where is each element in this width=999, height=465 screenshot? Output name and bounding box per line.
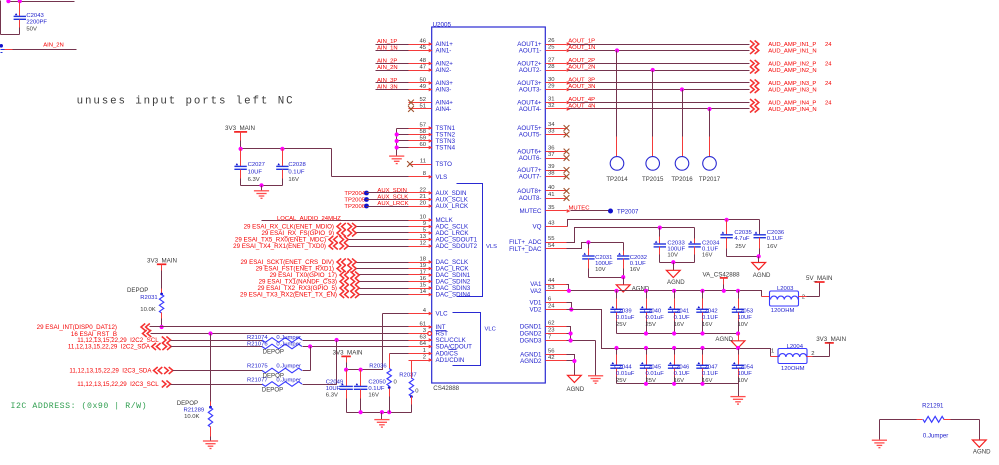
svg-text:59: 59 (419, 135, 426, 141)
junction VA tap (722, 289, 726, 293)
junction C2043 top (18, 0, 22, 3)
svg-text:27: 27 (548, 58, 555, 64)
capacitor C2047 (696, 349, 718, 385)
svg-text:AOUT_3N: AOUT_3N (568, 84, 595, 90)
off-page connector I2C2_SDA (68, 343, 171, 351)
NC mark AOUT8+ (564, 188, 570, 194)
junction C2047 top (700, 346, 704, 350)
testpoint TP2006 (344, 204, 369, 210)
svg-text:24: 24 (825, 101, 832, 107)
svg-text:VD1: VD1 (529, 300, 542, 307)
junction C2042 top (700, 289, 704, 293)
svg-text:2: 2 (802, 294, 805, 300)
wire net VD1 (567, 303, 572, 310)
capacitor C2050 (354, 370, 387, 413)
svg-text:C2039: C2039 (614, 308, 631, 314)
svg-text:10UF: 10UF (326, 386, 341, 392)
junction C2040 top (644, 289, 648, 293)
U2005 pin 29 AOUT3- (519, 84, 571, 94)
svg-text:R2037: R2037 (399, 372, 416, 378)
svg-text:AIN_2N: AIN_2N (377, 65, 398, 71)
wire net I2C3_SCL with jumper R21077 (171, 341, 337, 385)
capacitor C2041 (668, 291, 690, 334)
svg-text:AOUT_4N: AOUT_4N (568, 104, 595, 110)
U2005 pin 25 AOUT1- (519, 45, 571, 55)
svg-text:AIN_1N: AIN_1N (377, 45, 398, 51)
wire top-left net to C2043 (1, 1, 75, 35)
svg-text:VLC: VLC (436, 311, 449, 318)
svg-text:AUD_AMP_IN2_N: AUD_AMP_IN2_N (768, 68, 816, 74)
wire R21291 right to AGND (979, 420, 981, 441)
U2005 pin 27 AOUT2+ (517, 58, 570, 68)
wire net FILT+_ADC (567, 228, 695, 243)
off-page connector ESAI_FST(ENET_RXD1) (256, 265, 357, 273)
svg-text:51: 51 (419, 103, 426, 109)
off-page connector AOUT_3N (750, 86, 754, 93)
wire net I2C2_SCL with jumper R21074 (171, 340, 432, 342)
svg-text:0.1UF: 0.1UF (702, 371, 718, 377)
svg-text:54: 54 (548, 243, 555, 249)
svg-text:12: 12 (419, 240, 426, 246)
wire net AIN_1N (376, 45, 432, 51)
U2005 pin 2 AD1/CDIN (409, 354, 465, 364)
svg-text:22: 22 (419, 187, 426, 193)
U2005 pin 31 AOUT4+ (517, 97, 570, 107)
svg-text:CS42888: CS42888 (433, 385, 459, 392)
svg-text:AGND: AGND (753, 272, 771, 279)
U2005 pin 6 VD1 (529, 297, 566, 307)
svg-text:AD1/CDIN: AD1/CDIN (436, 357, 465, 364)
svg-text:53: 53 (548, 285, 555, 291)
svg-text:TP2014: TP2014 (606, 176, 628, 183)
U2005 pin 32 AOUT4- (519, 103, 571, 113)
svg-text:0.01uF: 0.01uF (616, 371, 635, 377)
resistor R21074 (247, 335, 302, 342)
wire net AOUT_2P (568, 58, 749, 64)
inductor L2004 (771, 344, 815, 372)
junction C2046 top (672, 346, 676, 350)
junction VD1-VD2 (569, 307, 573, 311)
svg-text:0: 0 (415, 389, 419, 395)
ground AGND below C2036 (752, 257, 771, 280)
wire net ESAI_INT (150, 326, 432, 328)
svg-text:46: 46 (419, 38, 426, 44)
svg-text:C2042: C2042 (700, 308, 717, 314)
junction bottom caps rail (644, 382, 648, 386)
wire net AIN_3P (376, 78, 432, 84)
svg-text:15: 15 (419, 282, 426, 288)
power symbol 5V_MAIN (806, 275, 832, 283)
U2005 pin 19 DAC_LRCK (409, 263, 470, 273)
off-page connector ESAI_TX2_RX3(GPIO_5) (258, 285, 360, 293)
wire ESAI_RX_FS(GPIO_9) (357, 232, 432, 234)
wire net AOUT_3P (568, 78, 749, 84)
svg-text:0.1UF: 0.1UF (674, 315, 690, 321)
svg-text:16V: 16V (702, 322, 713, 328)
junction AGND stem C2031 (621, 275, 625, 279)
junction AGND stem (757, 254, 761, 258)
U2005 pin 45 AIN1- (409, 45, 452, 55)
svg-text:R2031: R2031 (140, 295, 157, 301)
svg-text:0.1UF: 0.1UF (368, 386, 384, 392)
junction AGND stem C2033 (671, 260, 675, 264)
svg-text:AOUT_4P: AOUT_4P (568, 97, 595, 103)
svg-text:0.Jumper: 0.Jumper (276, 335, 301, 341)
junction R2036 bottom (387, 410, 391, 414)
svg-text:26: 26 (548, 38, 555, 44)
svg-text:0.Jumper: 0.Jumper (276, 341, 301, 347)
U2005 pin 3 RST (409, 328, 449, 338)
svg-text:AOUT2-: AOUT2- (519, 67, 542, 74)
svg-text:DEPOP: DEPOP (263, 348, 284, 355)
svg-text:AUD_AMP_IN1_P: AUD_AMP_IN1_P (768, 42, 816, 48)
junction C2033 top (658, 226, 662, 230)
off-page connector ESAI_TX5_RX0(ENET_MDC) (235, 236, 348, 244)
wire net AUX_SDIN (367, 188, 432, 194)
svg-text:AUD_AMP_IN3_P: AUD_AMP_IN3_P (768, 81, 816, 87)
junction C2041 top (672, 289, 676, 293)
svg-text:6.3V: 6.3V (248, 177, 260, 183)
resistor R2036 (369, 354, 408, 413)
svg-text:AOUT6-: AOUT6- (519, 155, 542, 162)
capacitor C2046 (668, 349, 690, 385)
svg-text:DEPOP: DEPOP (262, 387, 283, 394)
junction TSTN2 (395, 132, 399, 136)
svg-text:MUTEC: MUTEC (569, 205, 591, 211)
off-page connector ESAI_SCKT(ENET_CRS_DIV) (240, 259, 356, 267)
wire net AIN_3N (376, 84, 432, 90)
power tap VA_CS42888 (703, 272, 741, 291)
svg-text:11,12,13,15,22,29 I2C3_SDA: 11,12,13,15,22,29 I2C3_SDA (69, 368, 152, 375)
U2005 VLC group bracket (453, 313, 496, 366)
net label AUD_AMP_IN1_N (768, 49, 816, 55)
svg-text:I2C ADDRESS: (0x90 | R/W): I2C ADDRESS: (0x90 | R/W) (11, 401, 148, 411)
wire net FILT+_DAC (567, 243, 624, 249)
U2005 pin 1 AD0/CS (409, 348, 458, 358)
svg-text:10V: 10V (738, 322, 749, 328)
ground below DGND (588, 376, 603, 384)
svg-text:0.1UF: 0.1UF (288, 169, 304, 175)
svg-text:16V: 16V (288, 177, 299, 183)
U2005 pin 4 VLC (409, 308, 449, 318)
U2005 pin 64 SDA/CDOUT (409, 341, 473, 351)
svg-text:AOUT_2P: AOUT_2P (568, 58, 595, 64)
svg-text:37: 37 (548, 152, 555, 158)
svg-text:25: 25 (548, 45, 555, 51)
capacitor C2045 (640, 349, 664, 385)
svg-text:2200PF: 2200PF (26, 20, 47, 26)
svg-text:16V: 16V (368, 392, 379, 398)
wire top caps bottom rail (617, 333, 739, 335)
svg-text:L2003: L2003 (777, 286, 794, 292)
off-page connector AOUT_2P (750, 60, 754, 67)
svg-text:44: 44 (548, 278, 555, 284)
wire net VQ (567, 220, 760, 227)
svg-text:52: 52 (419, 97, 426, 103)
junction bottom rail (672, 331, 676, 335)
off-page connector AOUT_4N (750, 106, 754, 113)
svg-text:0.01uF: 0.01uF (646, 315, 665, 321)
testpoint TP2015 (642, 71, 664, 184)
svg-text:AGND: AGND (973, 449, 991, 456)
svg-text:C2040: C2040 (644, 308, 662, 314)
U2005 pin 24 VD2 (529, 304, 566, 314)
junction C2027 top (239, 147, 243, 151)
svg-text:VLS: VLS (486, 244, 497, 250)
NC mark TSTO (407, 161, 413, 167)
U2005 pin 9 ADC_SCLK (409, 221, 470, 231)
svg-text:C2046: C2046 (672, 364, 690, 370)
svg-text:AIN_1P: AIN_1P (377, 39, 397, 45)
svg-text:AGND: AGND (667, 279, 685, 286)
svg-text:TP2015: TP2015 (642, 176, 664, 183)
junction ground stem bottom (380, 410, 384, 414)
off-page connector I2C3_SCL (77, 381, 170, 389)
U2005 pin 51 AIN4- (409, 103, 452, 113)
wire C2033 C2034 bottom rail (660, 262, 695, 264)
svg-text:C2050: C2050 (368, 380, 386, 386)
svg-text:25V: 25V (616, 322, 627, 328)
wire net I2C3_SDA with jumper R21075 (173, 347, 311, 371)
wire net AIN_2P (376, 58, 432, 64)
U2005 pin 46 AIN1+ (409, 38, 454, 48)
svg-text:R21077: R21077 (247, 377, 268, 383)
wire net AUX_LRCK (367, 201, 432, 207)
svg-text:C2027: C2027 (248, 162, 265, 168)
U2005 pin 26 AOUT1+ (517, 38, 570, 48)
resistor R2037 (399, 361, 431, 413)
svg-text:31: 31 (548, 97, 555, 103)
U2005 pin 48 AIN2+ (409, 58, 454, 68)
svg-text:25V: 25V (646, 322, 657, 328)
svg-text:120OHM: 120OHM (771, 308, 795, 314)
junction bottom caps rail (672, 382, 676, 386)
svg-text:34: 34 (548, 122, 555, 128)
wire net I2C2_SDA with jumper R21076 (171, 346, 432, 348)
ground AGND below pins (567, 375, 585, 393)
ground below TSTN (389, 156, 404, 164)
svg-text:24: 24 (548, 304, 555, 310)
junction C2054 top (736, 346, 740, 350)
svg-text:R21074: R21074 (247, 335, 268, 341)
junction DGND3 (569, 338, 573, 342)
ground AGND below R21291 (972, 440, 991, 456)
NC mark AOUT6+ (564, 149, 570, 155)
U2005 pin 20 AUX_LRCK (409, 200, 470, 210)
svg-text:0.Jumper: 0.Jumper (276, 377, 301, 383)
svg-text:43: 43 (548, 221, 555, 227)
U2005 pin 23 DGND2 (520, 328, 567, 338)
junction C2045 top (644, 346, 648, 350)
svg-text:16: 16 (419, 276, 426, 282)
junction C2050 bottom (359, 410, 363, 414)
svg-text:unuses input ports left NC: unuses input ports left NC (77, 96, 295, 108)
ground below C2049 C2050 (374, 413, 389, 428)
svg-text:17: 17 (419, 269, 426, 275)
svg-text:0.01uF: 0.01uF (646, 371, 665, 377)
svg-text:55: 55 (548, 236, 555, 242)
wire ESAI_TX5_RX0(ENET_MDC) (349, 239, 432, 241)
off-page connector AOUT_3P (750, 80, 754, 87)
svg-text:30: 30 (548, 77, 555, 83)
NC mark AOUT6- (564, 155, 570, 161)
svg-text:10.0K: 10.0K (140, 307, 155, 313)
svg-text:57: 57 (419, 122, 426, 128)
NC mark AOUT7- (564, 174, 570, 180)
svg-text:1: 1 (423, 348, 426, 354)
wire net AIN_2N (376, 65, 432, 71)
U2005 pin 56 AGND1 (520, 349, 566, 359)
svg-text:TP2005: TP2005 (344, 198, 365, 204)
svg-text:11,12,13,15,22,29 I2C2_SDA: 11,12,13,15,22,29 I2C2_SDA (68, 344, 151, 351)
wire L2004 to 3V3_MAIN (807, 344, 830, 357)
junction RST R21289 (208, 331, 212, 335)
testpoint TP2005 (344, 197, 369, 203)
power symbol 3V3_MAIN (R2031) (147, 258, 177, 289)
resistor R2031 (127, 287, 164, 327)
wire net AOUT_2N (568, 65, 749, 71)
junction AOUT_1N testpoint tap (615, 48, 619, 52)
svg-text:13: 13 (419, 234, 426, 240)
junction C2050 top (359, 368, 363, 372)
svg-text:AUX_LRCK: AUX_LRCK (377, 201, 408, 207)
U2005 pin 58 TSTN2 (409, 129, 456, 139)
op-amp U2005 CS42888 codec body (432, 21, 546, 392)
junction TSTN4 (395, 145, 399, 149)
U2005 pin 44 VA1 (530, 278, 566, 288)
svg-text:AOUT8-: AOUT8- (519, 195, 542, 202)
svg-text:10UF: 10UF (248, 169, 263, 175)
capacitor C2033 (654, 228, 686, 263)
capacitor C2039 (610, 291, 634, 334)
capacitor C2035 (720, 220, 752, 257)
svg-text:19: 19 (419, 263, 426, 269)
svg-text:58: 58 (419, 129, 426, 135)
resistor R21289 (177, 334, 213, 441)
net label AUD_AMP_IN4_N (768, 107, 816, 113)
svg-text:AIN_2P: AIN_2P (377, 58, 397, 64)
svg-text:DGND2: DGND2 (520, 331, 542, 338)
junction VA1-VA2 (567, 289, 571, 293)
U2005 pin 10 MCLK (409, 214, 454, 224)
svg-text:0.01uF: 0.01uF (616, 315, 635, 321)
U2005 pin 57 TSTN1 (409, 122, 456, 132)
svg-text:C2041: C2041 (672, 308, 689, 314)
svg-text:16V: 16V (674, 322, 685, 328)
capacitor C2042 (696, 291, 718, 334)
svg-text:C2054: C2054 (736, 364, 754, 370)
capacitor C2053 (732, 291, 754, 334)
svg-text:DEPOP: DEPOP (127, 287, 148, 294)
junction TSTN3 (395, 139, 399, 143)
svg-text:TSTN4: TSTN4 (436, 145, 456, 152)
U2005 pin 14 DAC_SDIN4 (409, 289, 471, 299)
svg-text:AOUT5-: AOUT5- (519, 132, 542, 139)
svg-text:AIN4-: AIN4- (436, 106, 452, 113)
svg-text:120OHM: 120OHM (781, 366, 805, 372)
net label AIN_2N top-left (0, 43, 76, 53)
U2005 pin 41 AOUT8- (519, 192, 567, 202)
svg-text:AOUT_1P: AOUT_1P (568, 39, 595, 45)
junction bottom rail (644, 331, 648, 335)
capacitor C2040 (640, 291, 664, 334)
wire bottom caps bottom rail (617, 383, 739, 385)
capacitor C2031 (582, 243, 613, 278)
svg-text:50V: 50V (26, 27, 37, 33)
capacitor C2028 (276, 149, 306, 186)
capacitor C2027 (234, 149, 265, 186)
wire VLS rail (241, 149, 432, 177)
U2005 pin 53 VA2 (530, 285, 566, 295)
net label AUD_AMP_IN3_P (768, 81, 832, 87)
svg-text:AUD_AMP_IN3_N: AUD_AMP_IN3_N (768, 88, 816, 94)
U2005 pin 40 AOUT8+ (517, 185, 566, 195)
NC mark AOUT7+ (564, 167, 570, 173)
wire net AUX_SCLK (367, 195, 432, 201)
junction bottom caps rail (700, 382, 704, 386)
ground AGND below top caps (715, 334, 745, 349)
net label AUD_AMP_IN4_P (768, 101, 832, 107)
junction C2028 top (280, 147, 284, 151)
NC mark AOUT8- (564, 195, 570, 201)
off-page connector I2C3_SDA (69, 367, 173, 375)
svg-text:62: 62 (548, 321, 555, 327)
junction AOUT_3N testpoint tap (680, 87, 684, 91)
svg-text:AIN_2N: AIN_2N (43, 43, 64, 49)
off-page connector ESAI_RST_B (71, 330, 151, 338)
NC mark AIN4- (408, 106, 414, 112)
U2005 pin 7 DGND3 (520, 335, 567, 345)
capacitor C2044 (610, 349, 634, 385)
U2005 pin 55 FILT+_ADC (509, 236, 566, 246)
svg-text:25V: 25V (735, 244, 746, 250)
capacitor C2036 (754, 220, 785, 257)
wire net VA / VA rail (567, 291, 770, 297)
svg-text:AUD_AMP_IN4_P: AUD_AMP_IN4_P (768, 101, 816, 107)
power symbol 3V3_MAIN (VLS) (225, 125, 255, 148)
junction ground stem (259, 183, 263, 187)
off-page connector ESAI_TX3_RX2(ENET_TX_EN) (240, 291, 359, 299)
svg-text:32: 32 (548, 103, 555, 109)
off-page connector AOUT_1P (750, 41, 754, 48)
testpoint TP2016 (671, 90, 693, 184)
svg-text:48: 48 (419, 58, 426, 64)
wire net VLC (347, 314, 432, 370)
junction C2031 top (586, 240, 590, 244)
resistor R21077 (247, 377, 302, 393)
capacitor C2054 (732, 349, 754, 385)
net label AUD_AMP_IN1_P (768, 42, 832, 48)
wire TSTN1-4 to ground (397, 129, 432, 156)
svg-text:DAC_SDIN4: DAC_SDIN4 (436, 292, 471, 299)
junction R2031 INT (160, 325, 164, 329)
svg-text:AIN2-: AIN2- (436, 67, 452, 74)
svg-text:2: 2 (423, 354, 426, 360)
wire ESAI_TX4_RX1(ENET_TXD0) (349, 246, 432, 248)
svg-text:AOUT_3P: AOUT_3P (568, 78, 595, 84)
off-page connector ESAI_TX4_RX1(ENET_TXD0) (233, 243, 348, 251)
svg-text:C2028: C2028 (288, 162, 306, 168)
svg-text:21: 21 (419, 194, 426, 200)
svg-text:56: 56 (548, 349, 555, 355)
svg-text:63: 63 (419, 334, 426, 340)
svg-text:0.1UF: 0.1UF (767, 236, 783, 242)
svg-text:AIN1-: AIN1- (436, 48, 452, 55)
svg-text:40: 40 (548, 185, 555, 191)
U2005 pin 12 ADC_SDOUT2 (409, 240, 478, 250)
svg-text:6: 6 (548, 297, 552, 303)
svg-text:47: 47 (419, 64, 426, 70)
